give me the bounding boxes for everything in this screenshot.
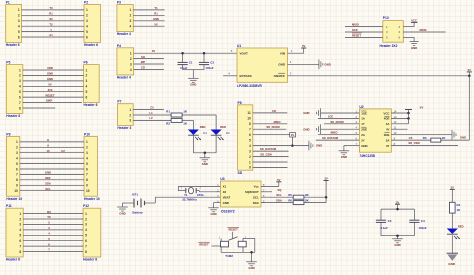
svg-text:GND: GND bbox=[411, 46, 417, 50]
svg-text:3: 3 bbox=[86, 79, 88, 83]
svg-text:CS: CS bbox=[409, 136, 413, 140]
wire P5.4 to P6.4 bbox=[23, 85, 84, 87]
svg-text:Header 10: Header 10 bbox=[6, 197, 22, 201]
svg-text:100uF: 100uF bbox=[419, 226, 427, 230]
wire P8.2 bbox=[253, 156, 289, 158]
wire U3 SQW/OUT stub bbox=[261, 191, 272, 193]
svg-text:VIN: VIN bbox=[280, 51, 285, 55]
capacitor C4 100uF bbox=[409, 209, 427, 236]
svg-text:LP2980-33DBVR: LP2980-33DBVR bbox=[237, 84, 263, 88]
svg-text:SO: SO bbox=[141, 55, 145, 59]
wire R6 to 3V bbox=[304, 202, 326, 204]
svg-text:Header 8: Header 8 bbox=[6, 258, 20, 262]
svg-text:5: 5 bbox=[85, 234, 87, 238]
wire P11.6 to P12.6 bbox=[23, 240, 83, 242]
svg-text:P1: P1 bbox=[6, 1, 10, 5]
svg-text:5V: 5V bbox=[302, 44, 305, 48]
svg-text:CD: CD bbox=[272, 109, 276, 113]
svg-text:S0: S0 bbox=[49, 17, 53, 21]
ground under C3/C4 bbox=[392, 239, 403, 247]
svg-text:5: 5 bbox=[86, 162, 88, 166]
svg-text:BT1: BT1 bbox=[132, 193, 138, 197]
wire P11.8 to P12.8 bbox=[23, 251, 83, 253]
svg-text:GND: GND bbox=[303, 127, 309, 131]
svg-text:2: 2 bbox=[130, 57, 132, 61]
svg-text:SCL: SCL bbox=[253, 195, 259, 199]
svg-text:7: 7 bbox=[249, 128, 251, 132]
crystal Y1 32.768KHz bbox=[181, 187, 205, 202]
svg-text:SD_DCKM: SD_DCKM bbox=[266, 125, 280, 129]
svg-text:C2: C2 bbox=[210, 60, 214, 64]
svg-text:XTAL: XTAL bbox=[197, 193, 205, 197]
battery BT1 bbox=[132, 193, 144, 215]
svg-text:BYPASS: BYPASS bbox=[240, 74, 252, 78]
wire U1 VIN to 5V bbox=[288, 52, 304, 54]
connector P6 (Header 6) bbox=[84, 61, 100, 108]
wire P8.6 to 3V box bbox=[253, 134, 290, 136]
LED D3 RED bbox=[447, 225, 464, 239]
wire U2 pin7 GND bbox=[344, 145, 360, 147]
wire R3 to 5V vertical bbox=[441, 139, 470, 141]
svg-text:P10: P10 bbox=[84, 133, 90, 137]
wire X1 row bbox=[178, 185, 220, 187]
svg-text:R2: R2 bbox=[166, 121, 170, 125]
wire P7.1 stub bbox=[133, 109, 164, 111]
svg-text:GND: GND bbox=[210, 212, 216, 216]
ground at U3 bbox=[208, 208, 219, 216]
svg-text:9: 9 bbox=[86, 184, 88, 188]
power 5V right bbox=[467, 68, 472, 76]
connector P7 (Header 3) bbox=[117, 100, 133, 130]
wire C1/C2 bottom rail bbox=[183, 69, 204, 71]
ground under C1/C2 bbox=[188, 78, 199, 86]
svg-text:100uF: 100uF bbox=[206, 66, 214, 70]
svg-text:RED: RED bbox=[458, 225, 464, 229]
wire P8.9 bbox=[253, 166, 288, 168]
svg-text:3Y: 3Y bbox=[386, 144, 390, 148]
svg-text:RX: RX bbox=[47, 210, 51, 214]
wire U2 pin5 segment bbox=[318, 134, 359, 136]
svg-text:2: 2 bbox=[86, 14, 88, 18]
resistor R2 1K bbox=[166, 118, 188, 125]
svg-text:3: 3 bbox=[86, 151, 88, 155]
wire U2 pin14 to 5V bbox=[391, 112, 408, 114]
ground at P13.6 bbox=[410, 42, 419, 50]
svg-text:X2: X2 bbox=[223, 190, 227, 194]
wire P9.9 to P10.9 bbox=[20, 184, 84, 186]
wire P8.8 MISO bbox=[253, 123, 287, 125]
svg-text:Header 4: Header 4 bbox=[117, 76, 131, 80]
svg-text:4: 4 bbox=[19, 85, 21, 89]
wire P9.7 to P10.7 bbox=[20, 173, 84, 175]
svg-text:R1: R1 bbox=[166, 109, 170, 113]
power 5V at U1 VIN bbox=[301, 44, 306, 48]
power 3V at C3/C4 bbox=[395, 200, 400, 209]
wire U3 Vcc to 5V bbox=[261, 185, 279, 187]
svg-text:1: 1 bbox=[130, 52, 132, 56]
voltage regulator U1 LP2980-33DBVR bbox=[237, 44, 288, 88]
capacitor C1 0.1uF bbox=[178, 53, 193, 70]
svg-text:3V: 3V bbox=[291, 133, 294, 137]
svg-text:RESET: RESET bbox=[229, 228, 239, 232]
svg-text:RESET: RESET bbox=[352, 33, 361, 37]
resistor R6 2K bbox=[293, 198, 309, 204]
wire P7.2 to R1 bbox=[133, 114, 171, 116]
wire U2 pin2 segment bbox=[318, 117, 359, 119]
svg-text:8: 8 bbox=[19, 106, 21, 110]
svg-text:L2: L2 bbox=[149, 116, 153, 120]
svg-text:SCL: SCL bbox=[276, 193, 282, 197]
svg-text:D2: D2 bbox=[226, 131, 230, 135]
wire P11.1 to P12.1 bbox=[23, 213, 83, 215]
svg-text:P2: P2 bbox=[84, 1, 88, 5]
svg-text:A1: A1 bbox=[49, 33, 53, 37]
wire P1.1 to P2.1 bbox=[22, 9, 84, 11]
svg-text:5V: 5V bbox=[48, 83, 51, 87]
svg-text:P11: P11 bbox=[6, 204, 12, 208]
svg-text:VCC: VCC bbox=[411, 19, 417, 23]
svg-text:GND: GND bbox=[394, 243, 400, 247]
svg-text:R3: R3 bbox=[423, 136, 427, 140]
svg-text:1: 1 bbox=[16, 140, 18, 144]
svg-text:R4: R4 bbox=[457, 203, 461, 207]
wire U2 pin12 to 5V bbox=[391, 123, 408, 125]
wire P11.7 to P12.7 bbox=[23, 245, 83, 247]
connector P10 (Header 10) bbox=[84, 133, 100, 201]
svg-text:4: 4 bbox=[16, 157, 18, 161]
svg-text:2: 2 bbox=[16, 146, 18, 150]
svg-text:2OE: 2OE bbox=[361, 128, 367, 132]
svg-text:GND: GND bbox=[361, 144, 367, 148]
svg-text:1: 1 bbox=[19, 68, 21, 72]
power 5V at U3 Vcc bbox=[276, 178, 281, 182]
svg-text:3: 3 bbox=[19, 79, 21, 83]
svg-text:P3: P3 bbox=[117, 1, 121, 5]
net label RESET left of switch bbox=[198, 242, 210, 246]
svg-text:T1: T1 bbox=[154, 6, 158, 10]
svg-text:3: 3 bbox=[85, 223, 87, 227]
connector P13 Header 3X2 bbox=[380, 16, 404, 48]
svg-text:T2: T2 bbox=[49, 22, 53, 26]
svg-text:GND: GND bbox=[278, 63, 286, 67]
svg-text:1: 1 bbox=[249, 160, 251, 164]
ground at U2 pin4 bbox=[303, 124, 320, 134]
wire RESET stub to switch lever bbox=[231, 232, 233, 239]
svg-text:4: 4 bbox=[130, 68, 132, 72]
wire R4 to LED D3 bbox=[451, 213, 453, 229]
svg-text:7: 7 bbox=[19, 244, 21, 248]
svg-text:11: 11 bbox=[247, 111, 251, 115]
junction ON/OFF 5V bbox=[468, 75, 471, 78]
svg-text:U2: U2 bbox=[359, 105, 363, 109]
junction at C1 bbox=[181, 52, 184, 55]
wire P5.7 stub bbox=[23, 102, 82, 104]
wire crystal right lead to X2 bbox=[196, 190, 199, 192]
resistor R1 1K bbox=[166, 109, 188, 117]
wire U2 pin13 to 5V bbox=[391, 117, 408, 119]
svg-text:U1: U1 bbox=[237, 44, 241, 48]
svg-text:8: 8 bbox=[249, 122, 251, 126]
svg-text:6: 6 bbox=[19, 239, 21, 243]
wire net 3V from P4.1 to U1 VOUT bbox=[134, 52, 237, 54]
svg-text:P7: P7 bbox=[117, 100, 121, 104]
svg-text:3: 3 bbox=[129, 119, 131, 123]
svg-text:TX: TX bbox=[47, 215, 51, 219]
connector P11 (Header 8) bbox=[6, 204, 23, 261]
svg-text:1: 1 bbox=[86, 140, 88, 144]
svg-text:P12: P12 bbox=[83, 204, 89, 208]
svg-text:1: 1 bbox=[86, 68, 88, 72]
svg-text:10: 10 bbox=[247, 117, 251, 121]
svg-text:2: 2 bbox=[86, 146, 88, 150]
wire P5.2 to P6.2 bbox=[23, 74, 84, 76]
wire P4.3 stub bbox=[134, 63, 164, 65]
wire P9.6 to P10.6 bbox=[20, 168, 84, 170]
wire U2 pin6 segment bbox=[316, 139, 360, 141]
svg-text:GND: GND bbox=[448, 262, 456, 266]
wire P9.4 to P10.4 bbox=[20, 157, 84, 159]
resistor R4 1K vertical bbox=[450, 202, 462, 213]
svg-text:VDD: VDD bbox=[47, 66, 53, 70]
wire P11.4 to P12.4 bbox=[23, 229, 83, 231]
wire R5 to 3V bbox=[304, 196, 326, 198]
power 5V above U2 right bbox=[405, 106, 423, 124]
resistor R5 2K bbox=[293, 193, 309, 199]
wire P13.2 to VCC bbox=[403, 26, 414, 28]
svg-text:Header 6: Header 6 bbox=[6, 43, 20, 47]
svg-text:1: 1 bbox=[129, 108, 131, 112]
wire P13.4 MOSI bbox=[403, 31, 445, 33]
wire P9.3 to P10.3 bbox=[20, 152, 84, 154]
svg-text:SD: SD bbox=[238, 171, 243, 175]
wire P13 pin 5 RESET bbox=[345, 36, 383, 38]
wire U3 SCL to R5 bbox=[261, 196, 293, 198]
wire C3/C4 bottom rail bbox=[381, 235, 414, 237]
svg-text:GND: GND bbox=[119, 211, 125, 215]
wire R2 to LED D1 bbox=[182, 119, 193, 121]
connector P5 (Header 8) bbox=[6, 61, 23, 118]
svg-text:P9: P9 bbox=[6, 133, 10, 137]
svg-text:10KP: 10KP bbox=[46, 99, 53, 103]
svg-text:7: 7 bbox=[16, 173, 18, 177]
svg-text:Header 10: Header 10 bbox=[84, 197, 100, 201]
ground at battery bbox=[117, 207, 128, 215]
svg-text:2Y: 2Y bbox=[361, 138, 365, 142]
svg-text:SD_CSM: SD_CSM bbox=[408, 141, 420, 145]
svg-text:3V: 3V bbox=[324, 177, 327, 181]
svg-text:4: 4 bbox=[86, 157, 88, 161]
wire U1 GND pin 2 bbox=[288, 63, 319, 65]
wire rail to ground bbox=[192, 70, 194, 79]
net label RESET above switch bbox=[227, 228, 239, 232]
svg-text:5: 5 bbox=[19, 234, 21, 238]
resistor R3 1K bbox=[423, 136, 447, 142]
wire P4.2 stub bbox=[134, 58, 164, 60]
svg-text:3OE: 3OE bbox=[384, 133, 390, 137]
svg-text:8: 8 bbox=[19, 250, 21, 254]
svg-text:RED: RED bbox=[220, 125, 226, 129]
svg-text:GND: GND bbox=[325, 62, 331, 66]
svg-text:Header 8: Header 8 bbox=[6, 114, 20, 118]
wire U1 BYPASS stub pin 4 bbox=[223, 75, 237, 77]
svg-text:6: 6 bbox=[85, 239, 87, 243]
svg-text:GND: GND bbox=[248, 266, 254, 270]
wire X1 bend down to crystal bbox=[177, 186, 179, 190]
connector P4 (Header 4) bbox=[117, 44, 134, 80]
svg-text:GND: GND bbox=[303, 111, 309, 115]
svg-text:3: 3 bbox=[249, 149, 251, 153]
wire switch bottom rail bbox=[220, 247, 222, 252]
svg-text:R1: R1 bbox=[49, 12, 53, 16]
wire U2 pin3 segment bbox=[324, 123, 359, 125]
junction switch ground bbox=[250, 251, 253, 254]
svg-text:3: 3 bbox=[19, 223, 21, 227]
wire P9.10 to P10.10 bbox=[20, 190, 84, 192]
svg-text:3V: 3V bbox=[152, 49, 155, 53]
svg-text:R6: R6 bbox=[288, 198, 292, 202]
svg-text:SD_CSM: SD_CSM bbox=[260, 153, 272, 157]
svg-text:REF: REF bbox=[45, 176, 51, 180]
svg-text:7: 7 bbox=[85, 244, 87, 248]
svg-text:CD: CD bbox=[141, 66, 145, 70]
svg-text:32.768KHz: 32.768KHz bbox=[182, 197, 197, 201]
svg-text:SCL: SCL bbox=[45, 187, 51, 191]
svg-text:2: 2 bbox=[18, 14, 20, 18]
svg-text:GND: GND bbox=[45, 171, 51, 175]
capacitor C2 100uF bbox=[199, 53, 215, 70]
svg-text:GND: GND bbox=[316, 144, 322, 148]
wire P5.1 to P6.1 bbox=[23, 69, 84, 71]
svg-text:GND: GND bbox=[341, 155, 347, 159]
svg-text:5V: 5V bbox=[277, 178, 280, 182]
svg-text:1: 1 bbox=[130, 8, 132, 12]
wire RESET to switch bbox=[212, 245, 222, 247]
svg-text:5: 5 bbox=[86, 90, 88, 94]
wire U2 pin10 to ground bbox=[391, 134, 452, 136]
svg-text:5V: 5V bbox=[468, 68, 471, 72]
connector P12 (Header 8) bbox=[83, 204, 101, 261]
svg-text:3: 3 bbox=[130, 62, 132, 66]
svg-text:4: 4 bbox=[19, 228, 21, 232]
svg-text:VOUT: VOUT bbox=[240, 51, 249, 55]
switch S1 contacts and lever bbox=[218, 236, 246, 241]
svg-text:1OE: 1OE bbox=[361, 111, 367, 115]
svg-text:3: 3 bbox=[130, 19, 132, 23]
svg-text:74HC125D: 74HC125D bbox=[359, 154, 375, 158]
svg-text:X1: X1 bbox=[223, 185, 227, 189]
svg-text:1: 1 bbox=[85, 212, 87, 216]
svg-text:2: 2 bbox=[19, 217, 21, 221]
svg-text:4: 4 bbox=[130, 25, 132, 29]
svg-text:P5: P5 bbox=[6, 61, 10, 65]
connector P9 (Header 10) bbox=[6, 133, 22, 201]
wire P11.3 to P12.3 bbox=[23, 223, 83, 225]
svg-text:4: 4 bbox=[18, 25, 20, 29]
svg-text:RED: RED bbox=[200, 125, 206, 129]
svg-text:3: 3 bbox=[16, 151, 18, 155]
svg-text:T1M2: T1M2 bbox=[225, 254, 233, 258]
junction SCL pullup bbox=[325, 196, 328, 199]
svg-text:GND: GND bbox=[223, 201, 229, 205]
wire P1.6 to P2.6 bbox=[22, 36, 84, 38]
wire P5.8 stub bbox=[23, 107, 55, 109]
wire P1.2 to P2.2 bbox=[22, 14, 84, 16]
wire P5.6 to P6.6 bbox=[23, 96, 84, 98]
svg-text:0.1uF: 0.1uF bbox=[180, 66, 188, 70]
svg-text:R5: R5 bbox=[288, 193, 292, 197]
svg-text:P13: P13 bbox=[383, 16, 389, 20]
wire P9.1 to P10.1 bbox=[20, 141, 84, 143]
svg-text:4: 4 bbox=[86, 25, 88, 29]
svg-text:SD_DATA0M: SD_DATA0M bbox=[322, 136, 339, 140]
svg-text:T0: T0 bbox=[49, 6, 53, 10]
svg-text:Vcc: Vcc bbox=[254, 185, 260, 189]
wire U1 ON/OFF to 5V rail far right bbox=[288, 75, 470, 77]
wire P9.8 to P10.8 bbox=[20, 179, 84, 181]
svg-text:9: 9 bbox=[249, 166, 251, 170]
wire battery plus to VBAT bbox=[145, 202, 156, 204]
svg-text:C2: C2 bbox=[61, 149, 65, 153]
wire P9.2 to P10.2 bbox=[20, 146, 84, 148]
svg-text:10: 10 bbox=[47, 149, 50, 153]
svg-text:5: 5 bbox=[16, 162, 18, 166]
wire U2 pin11 stub bbox=[391, 128, 407, 130]
wire U2 pin4 to ground bbox=[321, 128, 360, 130]
svg-text:Header 4: Header 4 bbox=[117, 32, 131, 36]
junction LED rail bbox=[204, 152, 207, 155]
ground at U2 pin7 bbox=[339, 151, 350, 159]
svg-text:GND: GND bbox=[47, 77, 53, 81]
svg-text:8: 8 bbox=[86, 178, 88, 182]
svg-text:RESET: RESET bbox=[46, 93, 55, 97]
LED D2 RED bbox=[211, 125, 230, 140]
svg-text:SDA: SDA bbox=[276, 198, 282, 202]
wire P13 pin 1 MISO bbox=[345, 26, 383, 28]
svg-text:3: 3 bbox=[86, 19, 88, 23]
svg-text:7: 7 bbox=[19, 101, 21, 105]
svg-text:1: 1 bbox=[18, 8, 20, 12]
svg-text:2: 2 bbox=[249, 155, 251, 159]
svg-text:GND: GND bbox=[460, 135, 466, 139]
connector P3 (Header 4) bbox=[117, 1, 133, 37]
svg-text:Header 8: Header 8 bbox=[83, 258, 97, 262]
svg-text:1: 1 bbox=[19, 212, 21, 216]
wire P11.2 to P12.2 bbox=[23, 218, 83, 220]
svg-text:SD_DCKM: SD_DCKM bbox=[330, 120, 344, 124]
wire P13.6 to ground bbox=[403, 36, 414, 38]
svg-text:4: 4 bbox=[85, 228, 87, 232]
svg-text:6: 6 bbox=[86, 167, 88, 171]
wire P11.5 to P12.5 bbox=[23, 234, 83, 236]
wire P9.5 to P10.5 bbox=[20, 163, 84, 165]
svg-text:3V: 3V bbox=[451, 186, 454, 190]
wire battery minus to ground bbox=[123, 202, 135, 204]
svg-text:4Y: 4Y bbox=[386, 128, 390, 132]
svg-text:2: 2 bbox=[86, 74, 88, 78]
svg-text:RESET: RESET bbox=[199, 243, 209, 247]
wire P8.1 bbox=[253, 161, 288, 163]
wire P8.11 CD bbox=[253, 112, 287, 114]
wire U2 pin1 to ground bbox=[321, 112, 360, 114]
svg-text:2: 2 bbox=[85, 217, 87, 221]
svg-text:GND: GND bbox=[153, 17, 159, 21]
power 3V boxed bbox=[290, 133, 296, 146]
svg-text:5V: 5V bbox=[420, 106, 424, 110]
svg-text:5: 5 bbox=[86, 30, 88, 34]
svg-text:5: 5 bbox=[249, 139, 251, 143]
connector P1 (Header 6) bbox=[6, 1, 22, 48]
wire P1.5 to P2.5 bbox=[22, 31, 84, 33]
